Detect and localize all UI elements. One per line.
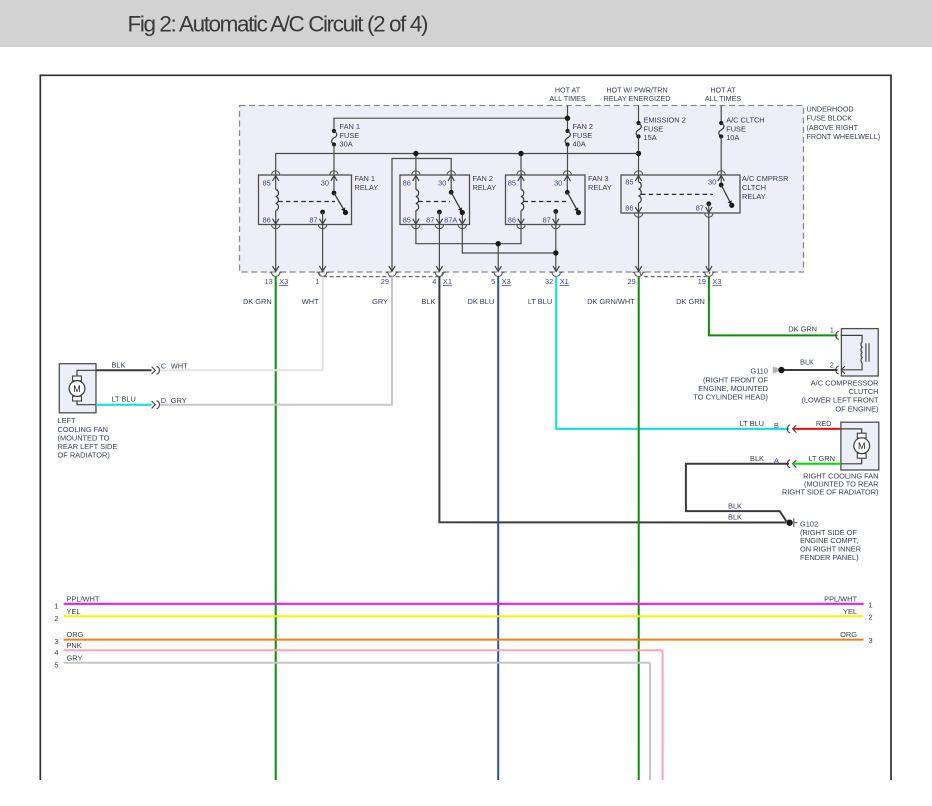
svg-text:5: 5	[54, 660, 58, 669]
svg-text:HOT W/ PWR/TRN: HOT W/ PWR/TRN	[606, 85, 667, 94]
svg-text:RED: RED	[816, 419, 832, 428]
svg-text:BLK: BLK	[750, 454, 764, 463]
svg-text:FUSE BLOCK: FUSE BLOCK	[807, 114, 853, 123]
fuse A/C CLTCH FUSE 10A	[719, 115, 765, 142]
svg-text:1: 1	[54, 601, 58, 610]
label: BLK / A / LT GRN row	[750, 454, 779, 465]
svg-text:BLK: BLK	[728, 512, 742, 521]
svg-text:ORG: ORG	[67, 630, 84, 639]
svg-text:2: 2	[869, 613, 873, 622]
wire LT BLU: left fan to connector D	[96, 395, 152, 405]
wire BLK: left fan to connector C	[96, 360, 152, 370]
svg-text:2: 2	[830, 360, 834, 369]
svg-text:X3: X3	[712, 277, 721, 286]
drawing frame	[40, 75, 891, 780]
wire: FAN2-87 to pin 4	[438, 225, 440, 272]
label: RIGHT COOLING FAN location	[782, 471, 879, 496]
svg-text:BLK: BLK	[728, 501, 742, 510]
svg-text:FAN 1: FAN 1	[340, 122, 361, 131]
svg-text:30: 30	[438, 178, 446, 187]
svg-text:LT BLU: LT BLU	[528, 297, 552, 306]
pin 29 (GRY)	[372, 266, 398, 306]
svg-text:RELAY: RELAY	[355, 183, 379, 192]
wire: FAN1-87 to pin 1	[322, 225, 324, 272]
svg-text:FENDER PANEL): FENDER PANEL)	[800, 553, 859, 562]
connector D (left fan, LT BLU to GRY)	[152, 396, 187, 409]
wire: FAN1-86 to pin 13	[275, 225, 277, 272]
svg-text:1: 1	[869, 601, 873, 610]
fuse FAN 2 FUSE 40A	[565, 122, 593, 148]
svg-text:B: B	[774, 421, 779, 430]
svg-text:CLTCH: CLTCH	[742, 183, 766, 192]
svg-text:GRY: GRY	[372, 297, 388, 306]
svg-text:G110: G110	[750, 367, 768, 376]
connector pin 1 (A/C clutch)	[836, 331, 845, 339]
svg-text:X1: X1	[443, 277, 452, 286]
svg-text:X3: X3	[502, 277, 511, 286]
svg-text:RELAY: RELAY	[742, 192, 766, 201]
svg-text:X3: X3	[279, 277, 288, 286]
svg-text:DK GRN/WHT: DK GRN/WHT	[587, 297, 635, 306]
svg-text:87: 87	[543, 216, 551, 225]
wire: hot feed to FAN1 fuse	[334, 118, 568, 131]
svg-text:29: 29	[381, 277, 389, 286]
svg-text:FAN 1: FAN 1	[355, 174, 376, 183]
svg-text:85: 85	[625, 178, 633, 187]
svg-text:30A: 30A	[340, 140, 353, 149]
wire DK GRN: pin 19 to A/C clutch pin 1	[709, 277, 838, 336]
relay FAN 1 RELAY K1	[259, 171, 379, 229]
svg-text:FUSE: FUSE	[726, 124, 746, 133]
label: UNDERHOOD FUSE BLOCK location	[807, 104, 881, 141]
svg-text:M: M	[858, 441, 866, 451]
pin 32 X1 (LT BLU)	[528, 266, 569, 306]
label: A/C COMPRESSOR CLUTCH location	[801, 379, 879, 414]
svg-text:87: 87	[309, 216, 317, 225]
wire: A/C-87 to pin 19	[708, 213, 710, 272]
wire: FAN2 relay pin 30 jog to output 29	[392, 159, 451, 272]
svg-text:FRONT WHEELWELL): FRONT WHEELWELL)	[807, 132, 881, 141]
svg-text:32: 32	[545, 277, 553, 286]
svg-text:19: 19	[698, 277, 706, 286]
svg-text:BLK: BLK	[112, 360, 126, 369]
svg-text:A/C CMPRSR: A/C CMPRSR	[742, 174, 788, 183]
wire: hot at all times vertical (A/C fuse feed)	[720, 106, 722, 124]
svg-text:1: 1	[830, 326, 834, 335]
svg-text:5: 5	[491, 277, 495, 286]
svg-text:4: 4	[432, 277, 436, 286]
svg-text:15A: 15A	[644, 133, 657, 142]
svg-text:M: M	[73, 384, 81, 394]
wire: hot at all times vertical (FAN2 fuse feed)	[565, 106, 570, 132]
svg-text:87: 87	[426, 216, 434, 225]
svg-text:UNDERHOOD: UNDERHOOD	[807, 104, 854, 113]
label: HOT AT ALL TIMES (fan fuses feed)	[549, 85, 586, 103]
svg-text:FAN 2: FAN 2	[473, 174, 494, 183]
label: G110 location	[693, 367, 768, 402]
svg-text:40A: 40A	[573, 140, 586, 149]
svg-text:86: 86	[403, 178, 411, 187]
svg-text:85: 85	[403, 216, 411, 225]
wire: FAN2-87A / FAN3-87 tie to pin 32	[462, 225, 558, 272]
svg-text:D: D	[161, 396, 166, 405]
wire: emission fuse to A/C relay pin 85	[636, 137, 641, 176]
pin 4 X1 (BLK)	[421, 266, 452, 306]
svg-text:DK GRN: DK GRN	[788, 325, 817, 334]
svg-text:4: 4	[54, 648, 58, 657]
svg-text:RELAY: RELAY	[588, 183, 612, 192]
wire BLK: pin 4 to ground G102	[439, 277, 786, 523]
wire LT GRN: connector A to right fan	[793, 454, 841, 464]
svg-text:30: 30	[554, 178, 562, 187]
label: HOT W/ PWR/TRN RELAY ENERGIZED	[604, 85, 671, 103]
wire: FAN2 fuse to FAN3 relay pin 30	[567, 145, 569, 176]
label: LEFT COOLING FAN location	[58, 416, 118, 459]
svg-text:A/C CLTCH: A/C CLTCH	[726, 115, 764, 124]
svg-text:GRY: GRY	[171, 396, 187, 405]
svg-text:DK GRN: DK GRN	[243, 297, 272, 306]
svg-text:13: 13	[264, 277, 272, 286]
wire RED: connector B to right fan	[793, 428, 841, 430]
wire: FAN2-85 / FAN3-86 coil return tie to pin 5	[416, 225, 521, 272]
svg-text:RELAY ENERGIZED: RELAY ENERGIZED	[604, 94, 671, 103]
connector pin B (right fan)	[787, 425, 796, 433]
svg-text:WHT: WHT	[302, 297, 319, 306]
svg-text:ALL TIMES: ALL TIMES	[705, 94, 742, 103]
svg-text:86: 86	[625, 204, 633, 213]
relay FAN 3 RELAY K3	[506, 171, 612, 229]
label: DK GRN wire to clutch pin 1	[788, 325, 834, 335]
svg-text:PPL/WHT: PPL/WHT	[824, 594, 857, 603]
svg-text:ORG: ORG	[840, 630, 857, 639]
motor M2: RIGHT COOLING FAN	[841, 422, 879, 470]
relay A/C CMPRSR CLTCH RELAY K4	[621, 171, 788, 217]
connector pin 2 (A/C clutch)	[830, 360, 845, 374]
svg-text:3: 3	[869, 636, 873, 645]
svg-text:BLK: BLK	[421, 297, 435, 306]
svg-text:HOT AT: HOT AT	[710, 85, 736, 94]
svg-text:85: 85	[262, 178, 270, 187]
wire LT BLU: pin 32 to right fan connector B	[556, 277, 789, 429]
wire 5 GRY	[54, 653, 650, 780]
ground G110	[773, 366, 785, 374]
wire: hot w/ pwr/trn feed vertical	[638, 106, 640, 124]
svg-text:3: 3	[54, 637, 58, 646]
svg-text:HOT AT: HOT AT	[555, 85, 581, 94]
wire 4 PNK	[54, 641, 662, 780]
svg-text:DK BLU: DK BLU	[467, 297, 494, 306]
wire DK GRN/WHT: pin 29 to bottom	[638, 277, 640, 781]
svg-text:87: 87	[696, 204, 704, 213]
wire: A/C fuse to A/C relay pin 30	[720, 137, 722, 176]
pin 29 (DK GRN/WHT)	[587, 266, 645, 306]
svg-text:29: 29	[627, 277, 635, 286]
svg-text:FAN 2: FAN 2	[573, 122, 594, 131]
title bar	[0, 0, 932, 47]
label: HOT AT ALL TIMES (A/C fuse feed)	[705, 85, 742, 103]
wire WHT: pin 1 to left fan connector C	[159, 277, 323, 371]
underhood fuse block (dashed box)	[240, 106, 804, 273]
connector body outline (pins 29/19)	[640, 272, 710, 277]
svg-text:FUSE: FUSE	[644, 124, 664, 133]
pin 1 (WHT)	[302, 266, 329, 306]
svg-text:LT GRN: LT GRN	[809, 454, 835, 463]
pin 5 X3 (DK BLU)	[467, 266, 510, 306]
svg-text:WHT: WHT	[171, 362, 188, 371]
svg-text:85: 85	[508, 178, 516, 187]
pin 13 X3 (DK GRN)	[243, 266, 288, 306]
wire BLK: connector A to ground G102	[686, 464, 789, 522]
svg-text:GRY: GRY	[67, 653, 83, 662]
svg-text:30: 30	[321, 178, 329, 187]
svg-text:ALL TIMES: ALL TIMES	[549, 94, 586, 103]
svg-text:OF RADIATOR): OF RADIATOR)	[58, 450, 110, 459]
svg-text:RELAY: RELAY	[473, 183, 497, 192]
svg-text:30: 30	[708, 178, 716, 187]
svg-text:1: 1	[315, 277, 319, 286]
svg-text:FAN 3: FAN 3	[588, 174, 609, 183]
svg-text:FUSE: FUSE	[573, 131, 593, 140]
svg-text:TO CYLINDER HEAD): TO CYLINDER HEAD)	[693, 393, 768, 402]
connector body outline (pins 1/29/4)	[319, 272, 443, 277]
svg-text:(ABOVE RIGHT: (ABOVE RIGHT	[807, 123, 859, 132]
label: LT BLU / B / RED row	[740, 419, 832, 430]
wire 1 PPL/WHT	[54, 594, 872, 610]
wire: FAN1 fuse to FAN1 relay pin 30	[333, 145, 335, 176]
svg-text:YEL: YEL	[843, 607, 857, 616]
svg-text:YEL: YEL	[67, 607, 81, 616]
pin 19 X3 (DK GRN)	[676, 266, 721, 306]
svg-text:RIGHT SIDE OF RADIATOR): RIGHT SIDE OF RADIATOR)	[782, 488, 879, 497]
svg-text:OF ENGINE): OF ENGINE)	[835, 404, 878, 413]
svg-text:LT BLU: LT BLU	[740, 419, 764, 428]
wire DK GRN: pin 13 to bottom	[275, 277, 277, 781]
svg-text:EMISSION 2: EMISSION 2	[644, 115, 686, 124]
svg-text:LT BLU: LT BLU	[112, 395, 136, 404]
svg-text:X1: X1	[560, 277, 569, 286]
svg-text:2: 2	[54, 614, 58, 623]
solenoid L1: A/C COMPRESSOR CLUTCH	[841, 329, 878, 376]
svg-text:87A: 87A	[444, 216, 457, 225]
wire: A/C-86 to pin 29	[638, 213, 640, 272]
svg-text:DK GRN: DK GRN	[676, 297, 705, 306]
connector C (left fan, BLK to WHT)	[152, 362, 189, 375]
svg-text:Fig 2: Automatic A/C Circuit (: Fig 2: Automatic A/C Circuit (2 of 4)	[128, 12, 428, 37]
wire BLK: clutch pin 2 to ground G110	[785, 357, 838, 370]
wire GRY: pin 29 to left fan connector D	[159, 277, 392, 405]
svg-text:PNK: PNK	[67, 641, 82, 650]
connector pin A (right fan)	[787, 460, 796, 468]
svg-text:ENGINE, MOUNTED: ENGINE, MOUNTED	[698, 384, 768, 393]
motor M1: LEFT COOLING FAN	[59, 364, 96, 413]
svg-text:86: 86	[508, 216, 516, 225]
wire: coil supply bus (emission fuse to relay coils)	[276, 151, 639, 175]
wire 2 YEL	[54, 607, 872, 623]
svg-text:FUSE: FUSE	[340, 131, 360, 140]
relay FAN 2 RELAY K2	[400, 171, 496, 229]
ground G102	[786, 518, 797, 527]
svg-text:BLK: BLK	[800, 357, 814, 366]
wire 3 ORG	[54, 630, 872, 646]
fuse FAN 1 FUSE 30A	[332, 122, 360, 148]
svg-text:86: 86	[262, 216, 270, 225]
svg-text:10A: 10A	[726, 133, 739, 142]
label: G102 location	[800, 519, 861, 562]
wire DK BLU: pin 5 to bottom	[497, 277, 499, 781]
fuse EMISSION 2 FUSE 15A	[636, 115, 686, 142]
svg-text:PPL/WHT: PPL/WHT	[67, 594, 100, 603]
svg-text:C: C	[161, 362, 167, 371]
